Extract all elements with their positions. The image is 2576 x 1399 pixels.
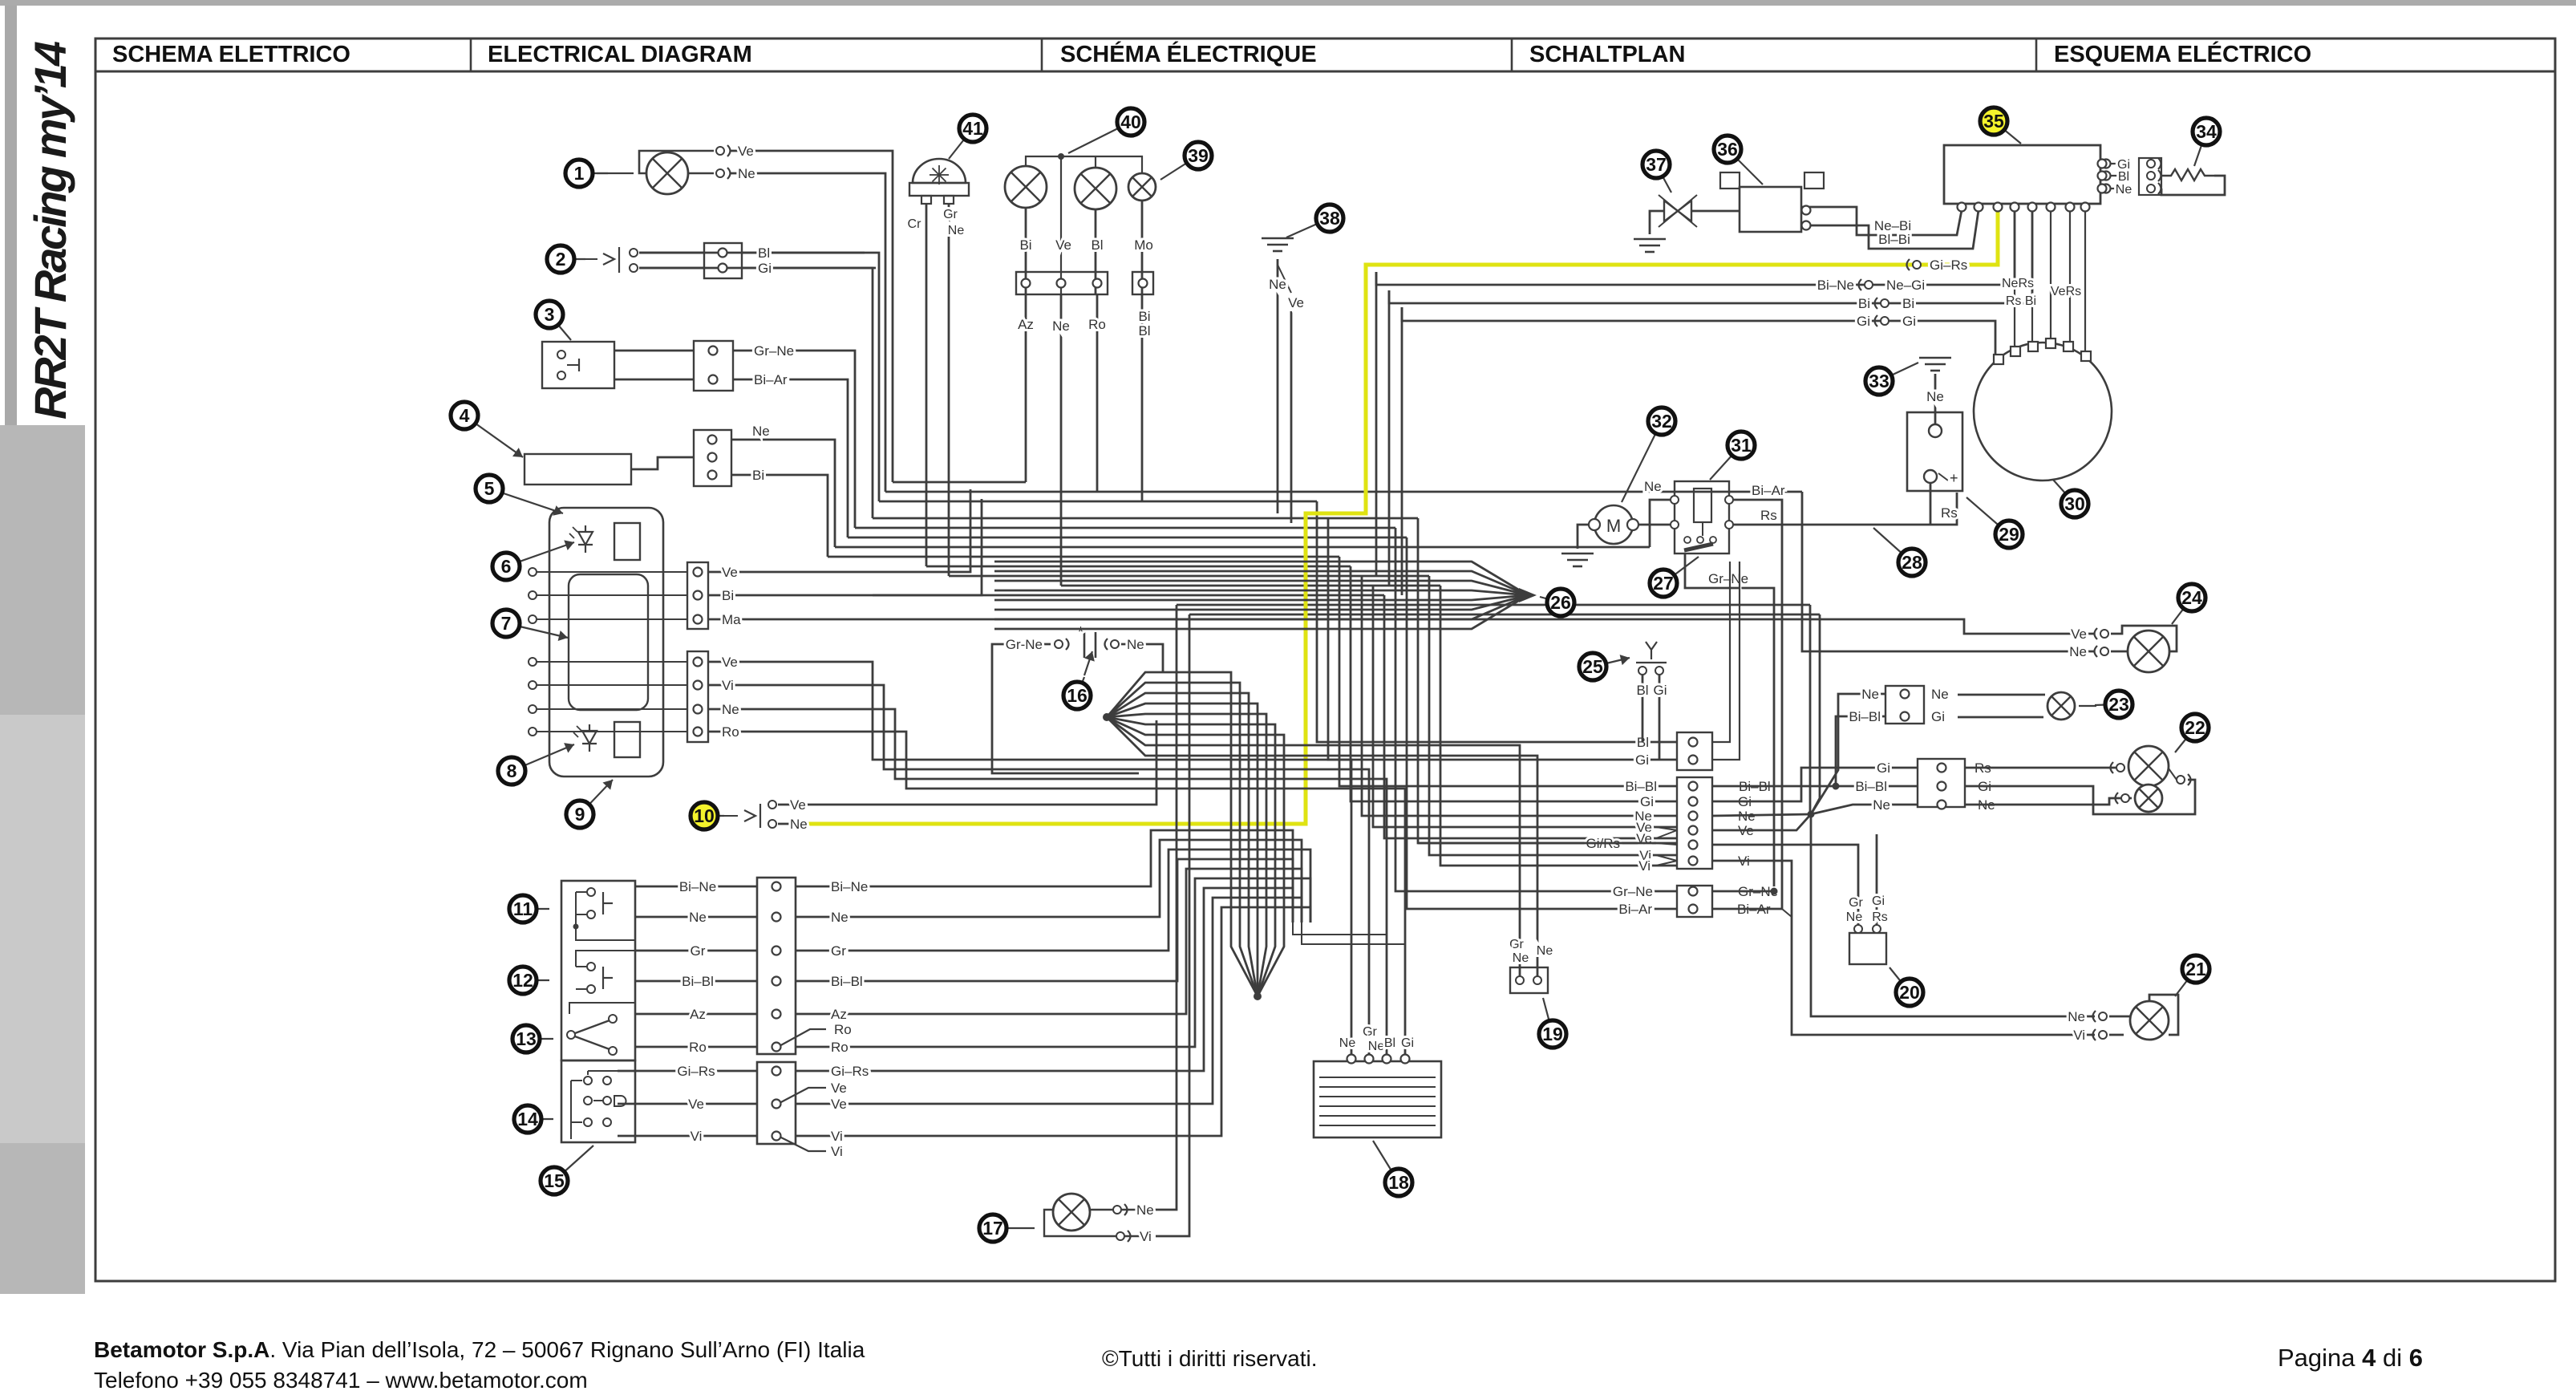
svg-text:Ne: Ne [2069,644,2087,659]
svg-text:30: 30 [2064,493,2085,514]
svg-text:35: 35 [1983,111,2004,132]
svg-text:Az: Az [690,1007,706,1022]
svg-text:Gi: Gi [1857,314,1870,329]
svg-text:Ve: Ve [831,1081,847,1096]
svg-text:4: 4 [460,405,470,426]
svg-text:Vi: Vi [1638,858,1651,874]
svg-text:Vi: Vi [831,1144,843,1159]
svg-text:Bl: Bl [1384,1036,1395,1050]
svg-text:Ne: Ne [738,166,755,181]
svg-text:Rs: Rs [1872,910,1888,924]
svg-text:Ro: Ro [1088,317,1106,332]
svg-text:3: 3 [545,304,555,325]
svg-text:20: 20 [1899,982,1920,1003]
svg-text:Gr: Gr [831,943,846,959]
svg-text:Ne: Ne [1861,687,1879,702]
svg-text:Ma: Ma [722,612,741,627]
svg-text:Pagina 4 di 6: Pagina 4 di 6 [2278,1344,2423,1372]
svg-text:39: 39 [1188,145,1209,166]
svg-text:RR2T Racing my’14: RR2T Racing my’14 [25,41,75,420]
svg-text:Gi: Gi [1872,894,1885,908]
svg-text:©Tutti i diritti riservati.: ©Tutti i diritti riservati. [1102,1346,1318,1371]
svg-text:Gi: Gi [1640,794,1654,809]
svg-text:23: 23 [2108,694,2129,715]
svg-text:Ve: Ve [722,565,738,580]
svg-text:6: 6 [501,556,512,577]
svg-text:13: 13 [516,1028,537,1049]
svg-text:Ro: Ro [834,1022,852,1037]
svg-text:Gi–Rs: Gi–Rs [1930,257,1967,273]
svg-text:Ro: Ro [831,1040,849,1055]
svg-text:Ve: Ve [722,655,738,670]
svg-text:Gi: Gi [1635,752,1649,768]
svg-text:Bi–Ar: Bi–Ar [754,372,788,387]
svg-text:Bi: Bi [1858,296,1870,311]
svg-text:Ro: Ro [722,724,739,740]
svg-text:Bi–Bl: Bi–Bl [1849,709,1881,724]
svg-text:31: 31 [1731,435,1752,456]
svg-text:Ne: Ne [948,224,965,237]
svg-text:17: 17 [982,1218,1003,1239]
svg-text:Ne: Ne [1537,944,1553,958]
svg-text:Ne: Ne [689,910,707,925]
svg-text:Ne: Ne [1513,951,1529,965]
svg-text:+: + [1950,470,1958,486]
svg-text:Ne: Ne [1644,479,1662,494]
svg-text:Bl: Bl [758,245,770,261]
svg-text:25: 25 [1582,656,1603,677]
svg-text:Ne: Ne [1127,637,1144,652]
svg-text:M: M [1606,516,1621,536]
svg-text:40: 40 [1120,112,1141,132]
svg-text:14: 14 [517,1109,538,1129]
svg-text:Gi: Gi [1931,709,1945,724]
svg-text:Vi: Vi [2073,1028,2085,1043]
svg-text:ESQUEMA ELÉCTRICO: ESQUEMA ELÉCTRICO [2054,40,2311,67]
svg-text:Ve: Ve [1055,237,1071,253]
svg-text:Bl–Bi: Bl–Bi [1878,232,1910,247]
svg-text:Bl: Bl [2118,170,2129,184]
svg-text:Ve: Ve [688,1097,704,1112]
svg-text:2: 2 [556,249,566,270]
svg-text:18: 18 [1388,1172,1409,1193]
svg-text:Bl: Bl [1636,683,1648,698]
svg-text:Bl: Bl [1091,237,1103,253]
svg-text:Telefono +39 055 8348741 – www: Telefono +39 055 8348741 – www.betamotor… [94,1368,588,1393]
svg-text:Bi–Bl: Bi–Bl [682,974,714,989]
svg-text:Rs Bi: Rs Bi [2006,294,2036,308]
svg-text:Ne: Ne [2116,183,2132,197]
svg-text:1: 1 [574,163,585,184]
svg-text:29: 29 [1999,524,2019,545]
svg-text:Ne: Ne [722,702,739,717]
svg-text:Gi: Gi [1654,683,1667,698]
svg-text:19: 19 [1542,1024,1563,1044]
svg-text:Ne: Ne [1269,277,1286,292]
svg-text:NeRs: NeRs [2002,277,2034,290]
svg-text:Bl: Bl [1138,323,1150,339]
svg-text:SCHÉMA ÉLECTRIQUE: SCHÉMA ÉLECTRIQUE [1060,40,1317,67]
svg-text:Vi: Vi [831,1129,843,1144]
svg-text:Bi–Ar: Bi–Ar [1618,902,1652,917]
svg-text:9: 9 [575,804,585,825]
svg-text:*: * [1078,624,1083,640]
svg-text:Ne: Ne [1926,389,1944,404]
svg-text:28: 28 [1902,552,1922,573]
svg-text:5: 5 [484,478,495,499]
svg-text:Gr: Gr [943,208,958,221]
svg-text:Ne: Ne [752,424,770,439]
svg-text:34: 34 [2196,121,2217,142]
svg-text:Rs: Rs [1941,505,1958,521]
svg-text:Ve: Ve [831,1097,847,1112]
svg-text:12: 12 [512,970,533,991]
svg-text:Gi: Gi [1902,314,1916,329]
svg-text:24: 24 [2181,587,2202,608]
svg-text:Bi–Ar: Bi–Ar [1752,483,1785,498]
svg-text:Gr: Gr [691,943,706,959]
svg-text:Gi: Gi [1401,1036,1414,1050]
svg-text:Bi–Ne: Bi–Ne [831,879,868,894]
svg-text:38: 38 [1319,208,1340,229]
svg-text:Ne: Ne [1931,687,1949,702]
svg-text:Bi–Ne: Bi–Ne [679,879,716,894]
svg-text:Gr–Ne: Gr–Ne [1613,884,1653,899]
svg-text:Ve: Ve [2071,627,2087,642]
svg-text:7: 7 [501,613,512,634]
svg-text:Gr: Gr [1363,1025,1377,1039]
svg-text:Ne: Ne [1339,1036,1356,1050]
svg-text:Bi: Bi [1138,309,1150,324]
svg-text:Vi: Vi [691,1129,703,1144]
svg-text:21: 21 [2185,959,2206,979]
svg-text:Gr–Ne: Gr–Ne [754,343,794,359]
svg-text:Mo: Mo [1134,237,1153,253]
svg-text:Ne–Gi: Ne–Gi [1886,278,1925,293]
svg-text:Gr: Gr [1509,938,1524,951]
svg-text:Gr–Ne: Gr–Ne [1708,571,1748,586]
svg-text:32: 32 [1651,411,1672,432]
svg-text:Ne: Ne [1136,1202,1154,1218]
svg-text:22: 22 [2185,717,2205,738]
svg-text:Bi: Bi [722,588,734,603]
svg-text:Bi–Bl: Bi–Bl [1855,779,1887,794]
svg-text:Gi: Gi [758,261,772,276]
svg-text:Bi: Bi [1019,237,1031,253]
svg-text:10: 10 [694,805,715,826]
svg-text:Ne: Ne [2068,1009,2085,1024]
svg-text:Ve: Ve [738,144,754,159]
svg-text:Bi–Bl: Bi–Bl [1625,779,1657,794]
svg-text:Ne: Ne [790,817,808,832]
svg-text:Gi–Rs: Gi–Rs [677,1064,715,1079]
svg-text:26: 26 [1550,592,1571,613]
svg-text:Gi: Gi [1877,760,1890,776]
svg-text:SCHALTPLAN: SCHALTPLAN [1529,42,1685,67]
svg-text:Ve: Ve [790,797,806,813]
svg-text:Az: Az [1018,317,1034,332]
svg-text:11: 11 [513,898,533,919]
svg-text:41: 41 [962,118,983,139]
svg-text:Bi: Bi [1902,296,1914,311]
svg-text:Ne: Ne [1368,1040,1385,1053]
svg-text:Ro: Ro [689,1040,707,1055]
svg-text:Bi–Ne: Bi–Ne [1817,278,1854,293]
svg-text:Az: Az [831,1007,847,1022]
svg-text:Vi: Vi [1140,1229,1152,1244]
svg-text:VeRs: VeRs [2051,285,2081,298]
svg-text:Gr: Gr [1849,896,1863,910]
svg-text:15: 15 [544,1170,565,1191]
svg-text:SCHEMA ELETTRICO: SCHEMA ELETTRICO [112,42,350,67]
svg-text:Ne: Ne [1052,318,1070,334]
svg-text:Rs: Rs [1760,508,1777,523]
svg-text:Ne: Ne [1846,910,1863,924]
svg-text:Bi: Bi [752,468,764,483]
svg-text:33: 33 [1869,371,1889,391]
svg-text:36: 36 [1717,139,1738,160]
svg-text:8: 8 [507,760,517,781]
svg-text:ELECTRICAL DIAGRAM: ELECTRICAL DIAGRAM [488,42,752,67]
svg-text:Ve: Ve [1288,295,1304,310]
svg-text:Betamotor S.p.A. Via Pian dell: Betamotor S.p.A. Via Pian dell’Isola, 72… [94,1337,865,1362]
svg-text:27: 27 [1653,573,1674,594]
svg-text:Ne: Ne [1873,797,1890,813]
svg-text:Gi–Rs: Gi–Rs [831,1064,869,1079]
svg-text:37: 37 [1646,154,1667,175]
svg-text:Ne: Ne [831,910,849,925]
svg-text:Gr-Ne: Gr-Ne [1006,637,1043,652]
svg-text:Vi: Vi [722,678,734,693]
svg-text:16: 16 [1067,685,1088,706]
svg-text:Cr: Cr [908,217,922,231]
svg-text:Bi–Bl: Bi–Bl [831,974,863,989]
